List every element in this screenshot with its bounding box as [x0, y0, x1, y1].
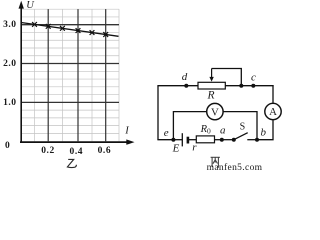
node d — [184, 84, 188, 88]
wire: voltmeter riser from e — [173, 112, 206, 140]
node e — [171, 138, 175, 142]
svg-text:A: A — [269, 106, 277, 118]
wire: left vertical of circuit — [157, 86, 159, 140]
svg-text:r: r — [192, 142, 197, 154]
svg-text:R: R — [206, 90, 214, 102]
switch S blade — [234, 133, 248, 140]
svg-text:I: I — [124, 126, 129, 137]
graph major vertical gridlines — [48, 9, 105, 141]
wire: ammeter down to bottom corner — [257, 120, 274, 140]
wire: top left to rheostat — [157, 85, 198, 87]
svg-text:1.0: 1.0 — [3, 98, 17, 108]
wire: rheostat to right corner — [225, 85, 273, 87]
data point marker 4 — [76, 28, 81, 33]
svg-text:d: d — [182, 71, 188, 83]
y-axis U — [19, 1, 24, 143]
x-axis I — [20, 139, 135, 144]
data point marker 2 — [46, 24, 51, 29]
svg-text:0: 0 — [5, 141, 10, 151]
wire: R0 to a — [215, 139, 222, 141]
node c — [251, 84, 255, 88]
battery E r short plate — [187, 137, 190, 144]
svg-text:V: V — [211, 106, 219, 118]
rheostat slider arrow — [209, 69, 213, 82]
data point marker 6 — [103, 32, 108, 37]
svg-text:0.6: 0.6 — [98, 146, 112, 156]
graph minor horizontal gridlines — [21, 9, 119, 133]
graph caption 乙 — [67, 159, 76, 167]
svg-text:manfen5.com: manfen5.com — [207, 162, 263, 172]
battery E r long plate — [181, 133, 183, 146]
wire: battery to R0 — [189, 139, 196, 141]
wire: a to switch pivot — [222, 139, 234, 141]
svg-text:U: U — [26, 0, 35, 11]
svg-text:c: c — [251, 71, 256, 83]
data point marker 3 — [60, 26, 65, 31]
svg-text:0.4: 0.4 — [70, 147, 84, 157]
graph minor vertical gridlines — [35, 9, 120, 141]
node a — [220, 138, 224, 142]
svg-text:S: S — [240, 122, 246, 133]
data point marker 1 — [32, 22, 37, 27]
switch pivot dot — [232, 138, 236, 142]
svg-text:b: b — [260, 127, 266, 139]
svg-text:2.0: 2.0 — [3, 59, 17, 69]
node b — [255, 138, 259, 142]
data line U-I — [21, 23, 119, 37]
svg-text:E: E — [172, 142, 180, 154]
wire: switch fixed contact to b — [247, 139, 257, 141]
graph major horizontal gridlines — [21, 25, 119, 103]
svg-text:a: a — [220, 124, 226, 136]
resistor R0 body — [196, 136, 214, 143]
circuit caption 丙 — [211, 157, 220, 167]
svg-text:3.0: 3.0 — [3, 20, 17, 30]
rheostat R body — [198, 82, 225, 89]
svg-text:R0: R0 — [200, 124, 211, 136]
wire: slider top connection — [212, 69, 242, 86]
junction dot slider — [239, 84, 243, 88]
wire: bottom left to e — [157, 139, 173, 141]
data point marker 5 — [90, 30, 95, 35]
svg-text:0.2: 0.2 — [41, 146, 55, 156]
voltmeter V — [207, 103, 223, 119]
wire: voltmeter to drop at b — [223, 112, 257, 140]
ammeter A — [265, 103, 281, 119]
wire: right vertical to ammeter — [272, 85, 274, 103]
svg-text:e: e — [164, 127, 169, 139]
wire: e to battery — [173, 139, 182, 141]
